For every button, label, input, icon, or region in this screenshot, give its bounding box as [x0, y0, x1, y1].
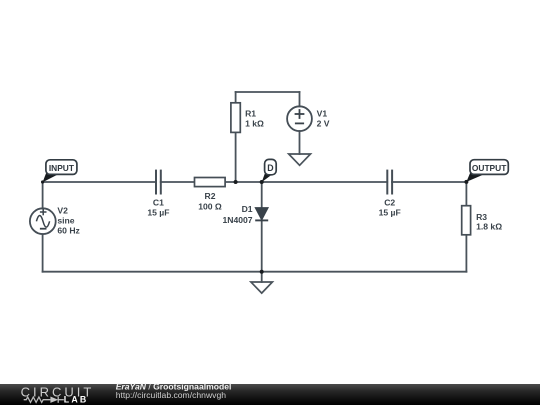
junction dot INPUT node — [41, 180, 44, 183]
capacitor C2 — [387, 170, 392, 195]
label V1 2 V — [317, 108, 330, 128]
CircuitLab logo wire-resistor-diode glyph — [24, 397, 64, 403]
svg-text:R1: R1 — [245, 108, 256, 118]
label R2 100 Ohm — [198, 191, 222, 211]
svg-text:R2: R2 — [205, 191, 216, 201]
svg-text:D1: D1 — [242, 204, 253, 214]
svg-text:1 kΩ: 1 kΩ — [245, 118, 264, 128]
wire C1 to R2 — [161, 181, 195, 183]
ground below bottom rail — [251, 282, 273, 293]
label D1 1N4007 — [222, 204, 252, 225]
svg-text:sine: sine — [57, 215, 74, 225]
svg-text:D: D — [267, 163, 273, 173]
wire D1 cathode to bottom rail — [261, 220, 263, 271]
svg-text:1N4007: 1N4007 — [222, 215, 252, 225]
label C1 15 uF — [147, 197, 169, 217]
node flag INPUT — [43, 160, 77, 183]
capacitor C1 — [156, 170, 161, 195]
svg-text:INPUT: INPUT — [49, 163, 75, 173]
resistor R2 — [195, 178, 226, 187]
resistor R3 — [462, 206, 471, 235]
label R1 1 kOhm — [245, 108, 264, 128]
footer bar — [0, 384, 540, 405]
svg-text:2 V: 2 V — [317, 119, 330, 129]
label R3 1.8 kOhm — [476, 212, 502, 232]
svg-text:V2: V2 — [57, 205, 68, 215]
wire INPUT node down to V2 — [42, 182, 44, 208]
svg-text:15 µF: 15 µF — [147, 207, 169, 217]
wire bottom rail — [43, 271, 467, 273]
wire V1 bottom to ground — [299, 131, 301, 154]
svg-text:OUTPUT: OUTPUT — [472, 163, 507, 173]
wire R2 to C2 — [225, 181, 387, 183]
svg-text:R3: R3 — [476, 212, 487, 222]
wire V2 bottom to bottom rail — [42, 234, 44, 272]
label C2 15 uF — [379, 197, 401, 217]
wire R1 top lead — [235, 92, 237, 103]
wire top horizontal R1 to V1 — [236, 91, 300, 93]
label V2 sine 60 Hz — [57, 205, 79, 235]
wire R1 bottom lead — [235, 132, 237, 182]
wire bottom rail to ground stub — [261, 272, 263, 282]
wire R3 bottom to bottom rail — [465, 235, 467, 272]
junction dot bottom rail ground — [260, 270, 264, 274]
voltage source V1 — [287, 106, 312, 131]
voltage source V2 — [30, 208, 56, 234]
wire D node down to D1 anode — [261, 182, 263, 208]
resistor R1 — [231, 103, 240, 133]
svg-text:15 µF: 15 µF — [379, 207, 401, 217]
node flag OUTPUT — [466, 160, 508, 182]
svg-text:60 Hz: 60 Hz — [57, 225, 79, 235]
wire V1 top lead — [299, 92, 301, 106]
svg-text:V1: V1 — [317, 108, 328, 118]
wire main horizontal left segment — [43, 181, 156, 183]
wire OUTPUT node down to R3 — [465, 182, 467, 206]
svg-text:C2: C2 — [384, 197, 395, 207]
svg-text:100 Ω: 100 Ω — [198, 201, 222, 211]
wire C2 to OUTPUT node — [392, 181, 466, 183]
junction dot R1/main — [234, 180, 238, 184]
junction dot D node — [260, 180, 264, 184]
svg-text:C1: C1 — [153, 197, 164, 207]
diode D1 — [255, 208, 268, 221]
node flag D — [262, 159, 277, 182]
svg-text:1.8 kΩ: 1.8 kΩ — [476, 222, 502, 232]
ground below V1 — [289, 154, 311, 165]
junction dot OUTPUT node — [464, 180, 468, 184]
